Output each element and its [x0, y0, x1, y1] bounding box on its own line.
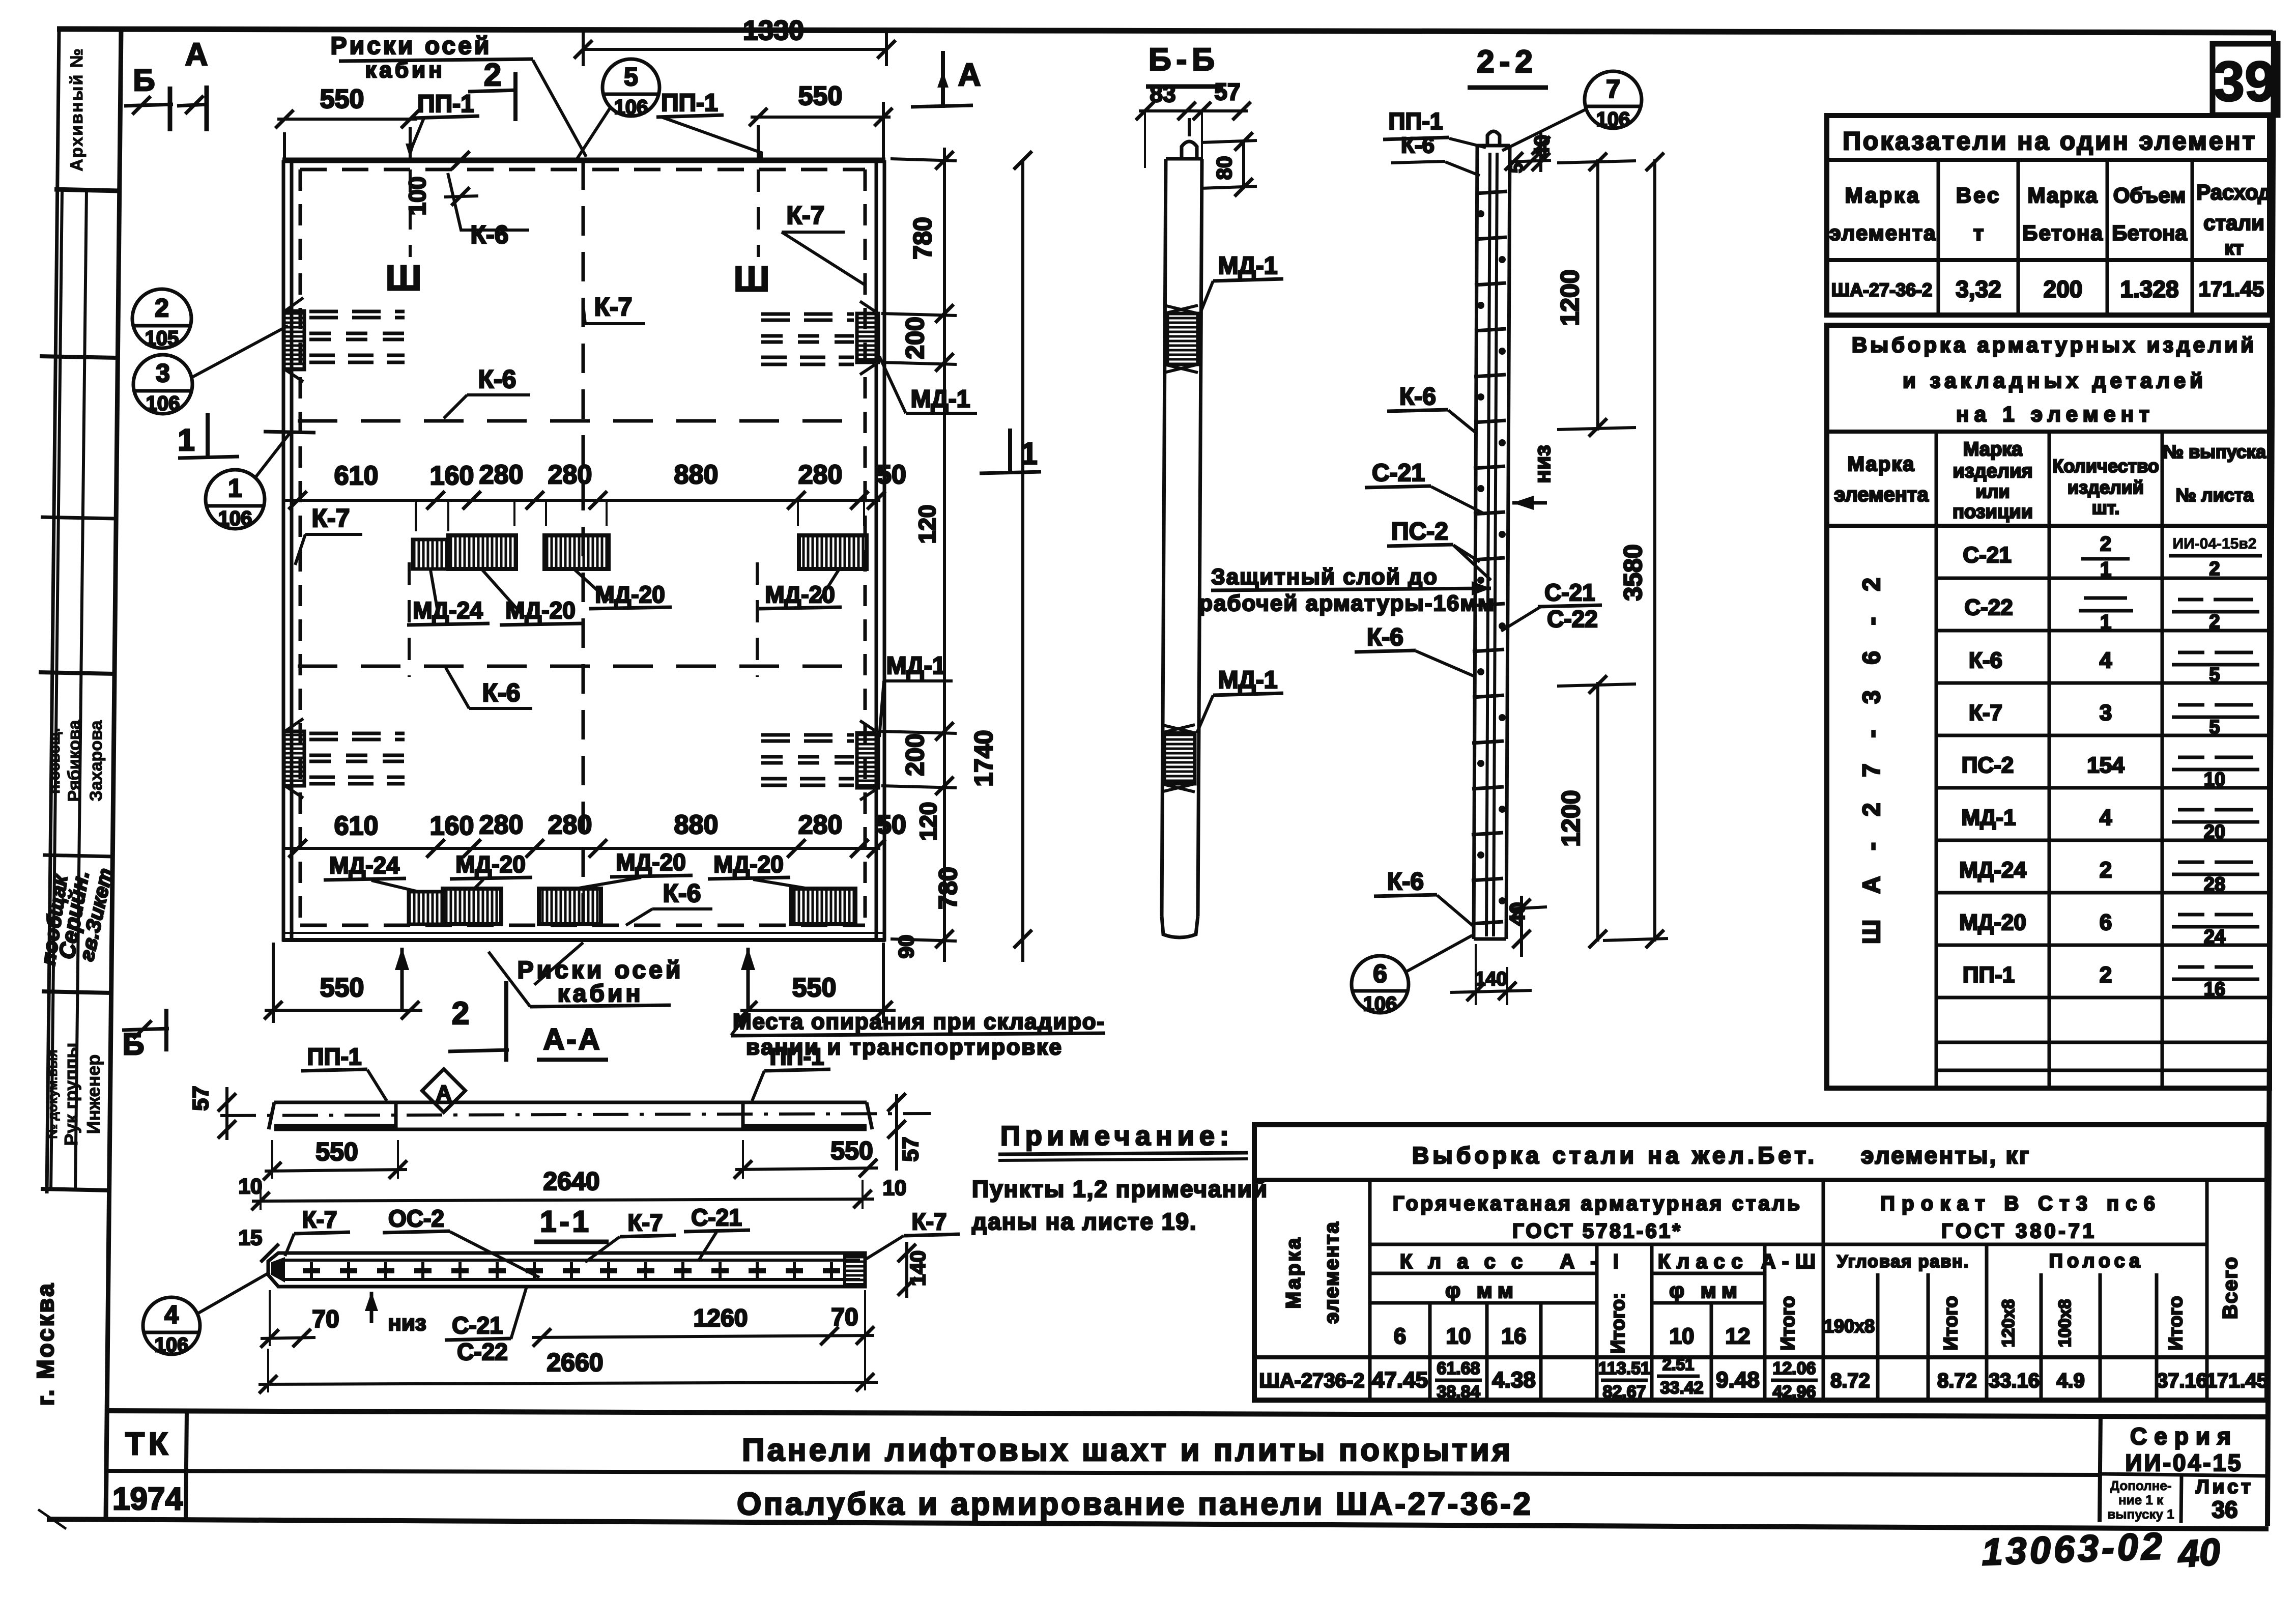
svg-text:12: 12: [1726, 1324, 1750, 1349]
svg-text:106: 106: [614, 96, 648, 119]
svg-text:шт.: шт.: [2092, 497, 2119, 518]
svg-text:С-21: С-21: [452, 1312, 503, 1339]
svg-text:2: 2: [452, 996, 469, 1031]
svg-text:ПП-1: ПП-1: [1388, 108, 1443, 134]
svg-text:24: 24: [2204, 926, 2225, 948]
series box: [2100, 1414, 2101, 1522]
svg-text:6: 6: [2100, 910, 2112, 935]
svg-text:на 1 элемент: на 1 элемент: [1956, 402, 2149, 426]
svg-text:кт: кт: [2224, 238, 2244, 259]
svg-text:3: 3: [2100, 700, 2112, 725]
svg-text:даны на листе 19.: даны на листе 19.: [972, 1208, 1197, 1235]
svg-text:82.67: 82.67: [1602, 1382, 1646, 1402]
svg-text:ИИ-04-15: ИИ-04-15: [2125, 1449, 2243, 1476]
svg-text:106: 106: [1363, 993, 1397, 1015]
circle 6/106: [1352, 956, 1409, 1013]
anchor block MD-20 row1 b: [544, 535, 609, 569]
svg-text:1: 1: [2100, 558, 2111, 581]
svg-text:Б-Б: Б-Б: [1149, 42, 1220, 77]
2-2 dim 1200 lower: [1596, 682, 1599, 942]
leader from 7/106 to column top: [1502, 109, 1587, 151]
svg-text:элемента: элемента: [1829, 221, 1937, 245]
svg-text:120: 120: [915, 802, 941, 841]
svg-text:Серия: Серия: [2130, 1423, 2238, 1449]
svg-text:К-6: К-6: [663, 879, 701, 907]
svg-text:2: 2: [2209, 611, 2220, 633]
support arrow left: [400, 948, 404, 1010]
svg-text:МД-24: МД-24: [1959, 858, 2026, 882]
svg-text:изделия: изделия: [1953, 461, 2032, 482]
svg-text:Объем: Объем: [2113, 183, 2186, 207]
svg-text:Опалубка и армирование панели: Опалубка и армирование панели ША-27-36-2: [737, 1487, 1531, 1522]
А-А bar top line: [274, 1101, 867, 1104]
svg-text:10: 10: [1446, 1324, 1471, 1349]
panel inner dashed rect right: [864, 169, 867, 925]
svg-text:К-7: К-7: [787, 201, 825, 230]
frame right border: [2268, 31, 2274, 1526]
svg-text:ПП-1: ПП-1: [769, 1043, 824, 1070]
svg-text:Рябикова: Рябикова: [65, 720, 84, 802]
Б-Б hatched block bottom: [1164, 733, 1195, 784]
bottom dim 550 left: [265, 1009, 422, 1012]
svg-text:МД-1: МД-1: [1218, 252, 1278, 279]
svg-text:140: 140: [1475, 969, 1507, 990]
table2 column lines: [1935, 432, 1938, 1088]
page number box 39: [2213, 44, 2278, 115]
svg-text:5: 5: [2209, 664, 2220, 686]
table3 phi row: [1370, 1272, 1597, 1275]
right-top edge block (MD-1): [857, 314, 878, 362]
right-bottom edge block (MD-1): [857, 733, 878, 788]
svg-text:2660: 2660: [547, 1348, 603, 1377]
stamp strip tick y1016: [41, 517, 116, 519]
svg-text:1: 1: [228, 474, 242, 502]
table1 title row line: [1827, 158, 2270, 162]
svg-text:К-6: К-6: [1969, 648, 2002, 673]
dim row A line: [285, 499, 880, 502]
svg-text:4: 4: [2100, 805, 2112, 830]
svg-text:ПС-2: ПС-2: [1391, 518, 1448, 545]
svg-text:Итого: Итого: [1940, 1296, 1962, 1350]
frame left border: [106, 30, 121, 1519]
svg-text:280: 280: [479, 810, 524, 840]
svg-text:Марка: Марка: [1848, 453, 1915, 475]
svg-text:Полоса: Полоса: [2049, 1250, 2144, 1272]
panel outline right edge inner: [875, 160, 878, 942]
circle 4/106: [143, 1297, 200, 1354]
svg-text:А: А: [185, 37, 208, 72]
А-А bar right pad: [743, 1102, 872, 1129]
Б-Б top loop ПП-1: [1182, 141, 1197, 159]
svg-text:Итого: Итого: [1777, 1296, 1799, 1350]
svg-text:МД-20: МД-20: [595, 581, 665, 608]
svg-text:100: 100: [404, 177, 430, 216]
svg-text:2: 2: [2100, 858, 2112, 882]
svg-text:Ш: Ш: [386, 258, 421, 298]
svg-text:Марка: Марка: [1963, 439, 2023, 460]
circle 7/106: [1585, 71, 1642, 128]
svg-text:160: 160: [430, 461, 474, 491]
svg-text:элементы, кг: элементы, кг: [1861, 1142, 2029, 1169]
svg-text:5: 5: [624, 63, 638, 91]
svg-text:К-7: К-7: [312, 504, 350, 532]
svg-text:160: 160: [430, 811, 474, 841]
svg-text:70: 70: [831, 1304, 858, 1331]
svg-text:83: 83: [1150, 80, 1175, 107]
1-1 bar right end fill: [845, 1255, 865, 1285]
svg-text:3580: 3580: [1619, 544, 1647, 601]
svg-text:280: 280: [798, 460, 843, 490]
panel inner dashed rect left: [299, 169, 302, 925]
svg-text:200: 200: [901, 733, 929, 776]
leader 6/106: [1405, 935, 1472, 972]
svg-text:ГОСТ 5781-61*: ГОСТ 5781-61*: [1512, 1220, 1680, 1242]
А-А dim 550 left: [265, 1170, 407, 1171]
svg-text:1200: 1200: [1556, 269, 1584, 326]
svg-text:70: 70: [312, 1306, 339, 1333]
svg-text:880: 880: [674, 460, 719, 490]
leader from 1/106 to panel edge: [255, 432, 291, 477]
Б-Б column foot: [1162, 916, 1198, 937]
right cab axis dashed: [757, 169, 760, 257]
svg-text:Всего: Всего: [2219, 1256, 2242, 1319]
svg-text:33.16: 33.16: [1989, 1370, 2040, 1392]
svg-text:ПП-1: ПП-1: [307, 1043, 361, 1070]
svg-text:Вес: Вес: [1956, 183, 2001, 207]
dashed K-6 line mid-lower: [298, 665, 865, 668]
table1 header/data divider: [1827, 258, 2270, 262]
panel outline top edge: [282, 158, 885, 163]
left-top edge block (MD-1): [284, 311, 304, 369]
svg-text:171.45: 171.45: [2206, 1370, 2268, 1392]
svg-text:550: 550: [315, 1137, 358, 1166]
svg-text:16: 16: [1502, 1324, 1527, 1349]
svg-text:550: 550: [830, 1136, 873, 1165]
frame bottom border: [47, 1519, 2269, 1529]
svg-text:3,32: 3,32: [1956, 276, 2001, 302]
svg-text:Рук группы: Рук группы: [61, 1043, 81, 1146]
svg-text:Панели лифтовых шахт и плиты п: Панели лифтовых шахт и плиты покрытия: [742, 1433, 1510, 1468]
svg-text:5: 5: [1506, 163, 1527, 173]
svg-text:Марка: Марка: [1845, 183, 1921, 207]
svg-text:1.328: 1.328: [2120, 276, 2178, 302]
dashed K-6 line mid-upper: [298, 419, 865, 423]
svg-text:6: 6: [1373, 959, 1387, 988]
svg-text:стали: стали: [2203, 211, 2264, 235]
table3 mark column: [1368, 1180, 1372, 1400]
panel outline right edge outer: [883, 160, 886, 942]
svg-text:280: 280: [548, 460, 592, 490]
svg-text:780: 780: [908, 217, 937, 259]
Б-Б dim 80: [1242, 141, 1245, 189]
svg-text:4: 4: [2100, 648, 2112, 673]
svg-text:МД-1: МД-1: [1218, 667, 1278, 694]
1-1 dim 2660: [259, 1382, 878, 1384]
svg-text:ПП-1: ПП-1: [1963, 962, 2015, 987]
svg-text:6: 6: [1394, 1324, 1406, 1349]
svg-text:С-22: С-22: [1964, 595, 2013, 620]
svg-text:ПС-2: ПС-2: [1962, 753, 2014, 778]
1-1 bar inner lines: [285, 1259, 860, 1262]
svg-text:200: 200: [901, 317, 929, 359]
title block row divider: [105, 1471, 2101, 1475]
svg-text:2-2: 2-2: [1477, 44, 1538, 79]
dashed groups near left-bottom block: [309, 733, 405, 784]
svg-text:К-6: К-6: [482, 678, 521, 707]
support arrow right: [747, 948, 750, 1010]
top dim 550 left: [277, 118, 417, 121]
svg-text:МД-20: МД-20: [505, 597, 576, 623]
svg-text:Риски осей: Риски осей: [331, 33, 492, 60]
svg-text:МД-24: МД-24: [329, 852, 399, 878]
svg-text:9.48: 9.48: [1716, 1368, 1760, 1392]
svg-text:№ выпуска: № выпуска: [2163, 441, 2266, 462]
panel inner dashed rect top: [300, 168, 865, 172]
svg-text:Захарова: Захарова: [87, 720, 106, 801]
svg-text:120: 120: [914, 505, 940, 544]
svg-text:Угловая равн.: Угловая равн.: [1837, 1252, 1969, 1271]
svg-text:рабочей арматуры-16мм: рабочей арматуры-16мм: [1199, 591, 1495, 616]
svg-text:1: 1: [178, 423, 194, 457]
svg-text:МД-20: МД-20: [455, 851, 526, 877]
leader to axis: [533, 60, 586, 157]
right dim line inner: [943, 148, 946, 962]
svg-text:ГОСТ 380-71: ГОСТ 380-71: [1941, 1220, 2094, 1242]
svg-text:Инженер: Инженер: [83, 1055, 104, 1134]
panel outline bottom inner line: [283, 932, 884, 934]
svg-text:МД-20: МД-20: [616, 849, 686, 875]
svg-text:Места опирания при складиро-: Места опирания при складиро-: [733, 1009, 1104, 1034]
svg-text:С-22: С-22: [457, 1339, 508, 1365]
svg-text:10: 10: [239, 1174, 263, 1198]
Б-Б hatched block top: [1167, 314, 1198, 364]
svg-text:Бетона: Бетона: [2022, 221, 2103, 245]
dashed groups near right-top block: [761, 314, 854, 364]
svg-text:7: 7: [1606, 75, 1620, 103]
svg-text:А: А: [436, 1081, 451, 1105]
svg-text:1260: 1260: [694, 1305, 748, 1332]
title block top line: [107, 1411, 2268, 1417]
svg-text:ние 1 к: ние 1 к: [2118, 1492, 2164, 1507]
svg-text:ИИ-04-15в2: ИИ-04-15в2: [2173, 535, 2257, 552]
svg-text:К-7: К-7: [912, 1208, 947, 1235]
diamond А marker: [422, 1069, 466, 1113]
2-2 top loop: [1487, 131, 1500, 146]
svg-text:МД-20: МД-20: [713, 851, 784, 877]
svg-text:10: 10: [1670, 1324, 1695, 1349]
svg-text:Марка: Марка: [2028, 183, 2099, 207]
svg-text:ША-2736-2: ША-2736-2: [1259, 1370, 1365, 1392]
svg-text:80: 80: [1212, 156, 1236, 180]
svg-text:4.38: 4.38: [1492, 1368, 1536, 1392]
2-2 dim 1200 upper: [1596, 159, 1599, 431]
svg-text:57: 57: [1214, 78, 1240, 105]
svg-text:ША-27-36-2: ША-27-36-2: [1831, 279, 1932, 300]
svg-text:Примечание:: Примечание:: [1000, 1121, 1234, 1151]
svg-text:550: 550: [798, 81, 843, 111]
svg-text:С-21: С-21: [1963, 543, 2011, 567]
top dim 550 right: [751, 116, 891, 119]
svg-text:С-21: С-21: [1372, 460, 1425, 487]
svg-text:Дополне-: Дополне-: [2110, 1478, 2172, 1493]
top dim 1330: [583, 48, 886, 51]
svg-text:100х8: 100х8: [2055, 1299, 2075, 1348]
svg-text:позиции: позиции: [1953, 501, 2033, 523]
svg-text:780: 780: [934, 867, 962, 909]
svg-text:50: 50: [877, 460, 906, 490]
svg-text:или: или: [1975, 481, 2010, 502]
table1 column lines: [1938, 159, 2270, 160]
svg-text:п.освещ.: п.освещ.: [46, 728, 63, 793]
svg-text:Марка: Марка: [1282, 1236, 1305, 1309]
dashed groups near left-top block: [309, 311, 405, 362]
svg-text:10: 10: [883, 1176, 907, 1200]
svg-text:16: 16: [2204, 979, 2225, 1000]
svg-text:40: 40: [2176, 1530, 2222, 1576]
svg-text:Итого:: Итого:: [1608, 1293, 1629, 1354]
leader from 5/106: [575, 108, 610, 162]
svg-text:15: 15: [239, 1226, 263, 1249]
svg-text:2640: 2640: [543, 1167, 599, 1195]
svg-text:4: 4: [164, 1300, 179, 1329]
svg-text:36: 36: [2212, 1496, 2237, 1523]
svg-text:550: 550: [320, 973, 364, 1003]
svg-text:2: 2: [2100, 533, 2111, 555]
svg-text:28: 28: [2204, 874, 2225, 895]
anchor block MD-20 row2 b: [539, 889, 601, 924]
svg-text:106: 106: [1596, 108, 1630, 131]
svg-text:105: 105: [145, 327, 179, 350]
svg-text:С-21: С-21: [1544, 579, 1595, 606]
svg-text:С-22: С-22: [1547, 606, 1598, 632]
svg-text:элемента: элемента: [1321, 1221, 1343, 1324]
table3 dia cells row: [1370, 1301, 1597, 1305]
svg-text:20: 20: [2204, 821, 2225, 843]
svg-text:2: 2: [2100, 962, 2112, 987]
svg-text:57: 57: [898, 1137, 923, 1162]
svg-text:К-7: К-7: [628, 1209, 663, 1236]
table3 steel: outer: [1254, 1125, 2267, 1400]
svg-text:К-6: К-6: [1399, 383, 1436, 410]
table3 prokat columns: [1876, 1273, 1880, 1400]
2-2 rebar dots left: [1477, 210, 1506, 904]
right dim line outer 1740: [1021, 160, 1024, 962]
svg-text:т: т: [1973, 221, 1984, 245]
supplement box: [2181, 1475, 2182, 1523]
svg-text:ТК: ТК: [125, 1427, 172, 1462]
svg-text:90: 90: [894, 935, 918, 959]
svg-text:Бетона: Бетона: [2112, 221, 2187, 245]
svg-text:13063-02: 13063-02: [1981, 1525, 2166, 1574]
anchor block MD-20 row1 c: [799, 535, 867, 569]
svg-text:К-6: К-6: [1401, 133, 1434, 158]
svg-text:выпуску 1: выпуску 1: [2107, 1506, 2174, 1522]
title block ТК column divider: [186, 1411, 187, 1521]
table2 Выборка арматурных изделий: outer: [1827, 325, 2270, 1088]
svg-text:12.06: 12.06: [1772, 1359, 1816, 1378]
svg-text:61.68: 61.68: [1437, 1359, 1480, 1378]
svg-text:С-21: С-21: [691, 1204, 742, 1231]
svg-text:К-6: К-6: [1387, 868, 1424, 895]
svg-text:5: 5: [2209, 717, 2220, 738]
svg-text:А-А: А-А: [543, 1023, 601, 1056]
svg-text:1974: 1974: [112, 1482, 183, 1517]
svg-text:№ листа: № листа: [2176, 485, 2254, 505]
panel outline left edge outer: [282, 160, 285, 942]
panel outline left edge inner: [290, 160, 294, 942]
А-А bar left pad: [269, 1102, 396, 1129]
leader 4/106: [198, 1272, 270, 1313]
svg-text:МД-1: МД-1: [886, 652, 946, 679]
svg-text:изделий: изделий: [2068, 477, 2144, 498]
svg-text:φ мм: φ мм: [1445, 1278, 1518, 1302]
svg-text:кабин: кабин: [558, 980, 644, 1007]
stamp strip bottom end: [41, 1189, 111, 1190]
svg-text:120х8: 120х8: [1999, 1299, 2018, 1348]
svg-text:610: 610: [334, 461, 379, 491]
circle 3/106: [133, 355, 192, 414]
svg-text:610: 610: [334, 811, 379, 841]
А-А bar bottom line: [274, 1128, 867, 1131]
svg-text:140: 140: [906, 1250, 930, 1286]
Б-Б column body: [1162, 159, 1166, 916]
svg-text:550: 550: [792, 973, 837, 1003]
panel inner dashed rect bottom: [300, 924, 865, 927]
svg-text:880: 880: [674, 810, 719, 840]
central vertical axis dashed: [582, 160, 585, 940]
svg-text:Защитный слой до: Защитный слой до: [1211, 564, 1438, 589]
2-2 rebar cross ticks: [1472, 191, 1507, 924]
table3 data divider: [1254, 1355, 2267, 1359]
А-А dim 2640: [252, 1199, 874, 1201]
svg-text:1: 1: [2100, 611, 2111, 634]
2-2 column body: [1474, 146, 1477, 939]
svg-text:8.72: 8.72: [1937, 1370, 1977, 1392]
stamp strip inner verticals: [51, 190, 62, 1191]
svg-text:Показатели на один элемент: Показатели на один элемент: [1843, 127, 2255, 155]
svg-text:190х8: 190х8: [1824, 1316, 1875, 1336]
svg-text:φ мм: φ мм: [1669, 1278, 1742, 1302]
svg-text:33.42: 33.42: [1660, 1378, 1703, 1398]
svg-text:Пункты 1,2 примечаний: Пункты 1,2 примечаний: [972, 1176, 1268, 1202]
anchor block MD-20 row2 a: [443, 889, 501, 924]
svg-text:Архивный №: Архивный №: [67, 47, 87, 171]
svg-text:4.9: 4.9: [2056, 1370, 2085, 1392]
1-1 bar outline: [268, 1253, 865, 1287]
svg-text:37.16: 37.16: [2157, 1370, 2207, 1392]
svg-text:39: 39: [2214, 50, 2276, 113]
svg-text:280: 280: [548, 810, 592, 840]
svg-text:Лист: Лист: [2196, 1476, 2254, 1498]
stamp strip outer line: [47, 30, 59, 1193]
anchor block MD-24 row1: [413, 539, 448, 569]
table2 header bottom: [1827, 524, 2270, 528]
svg-text:1740: 1740: [969, 730, 998, 786]
left cab axis dashed: [409, 169, 412, 257]
table3 class row: [1370, 1243, 2207, 1246]
dashed groups near right-bottom block: [761, 735, 854, 785]
circle 5/106: [602, 59, 659, 116]
svg-text:МД-20: МД-20: [1959, 910, 2026, 935]
anchor block MD-24 row2: [409, 892, 443, 924]
А-А dim 550 right: [735, 1168, 878, 1170]
svg-text:МД-1: МД-1: [1961, 805, 2016, 830]
svg-text:154: 154: [2087, 753, 2125, 778]
svg-text:Горячекатаная арматурная сталь: Горячекатаная арматурная сталь: [1393, 1192, 1800, 1215]
2-2 top small dims: [1510, 160, 1551, 162]
svg-text:МД-24: МД-24: [413, 597, 483, 623]
stamp divider y1950: [42, 991, 112, 993]
